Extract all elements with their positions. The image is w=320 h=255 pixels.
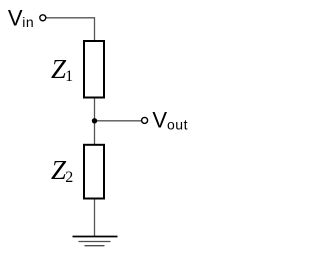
svg-text:2: 2 bbox=[65, 169, 73, 186]
svg-text:V: V bbox=[152, 107, 167, 132]
svg-text:out: out bbox=[167, 117, 188, 133]
svg-text:1: 1 bbox=[65, 68, 73, 85]
svg-text:in: in bbox=[22, 14, 34, 30]
svg-text:V: V bbox=[8, 6, 23, 31]
